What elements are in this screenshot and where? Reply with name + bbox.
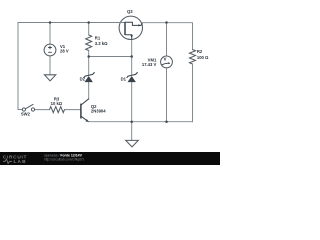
svg-text:2N3904: 2N3904 <box>91 108 106 113</box>
svg-text:R2: R2 <box>197 49 203 54</box>
svg-text:D1: D1 <box>121 76 127 81</box>
svg-text:100 Ω: 100 Ω <box>197 55 209 60</box>
svg-text:Q3: Q3 <box>127 9 133 14</box>
svg-text:17.43 V: 17.43 V <box>142 62 157 67</box>
svg-text:LAB: LAB <box>14 159 27 165</box>
svg-text:10 kΩ: 10 kΩ <box>51 101 63 106</box>
svg-text:D2: D2 <box>80 77 86 82</box>
svg-text:3.3 kΩ: 3.3 kΩ <box>95 41 108 46</box>
svg-text:SW2: SW2 <box>21 112 31 117</box>
svg-text:V: V <box>163 57 166 62</box>
svg-text:28 V: 28 V <box>60 48 69 53</box>
svg-text:http://circuitlab.com/c/fkq87s: http://circuitlab.com/c/fkq87s <box>44 158 85 162</box>
